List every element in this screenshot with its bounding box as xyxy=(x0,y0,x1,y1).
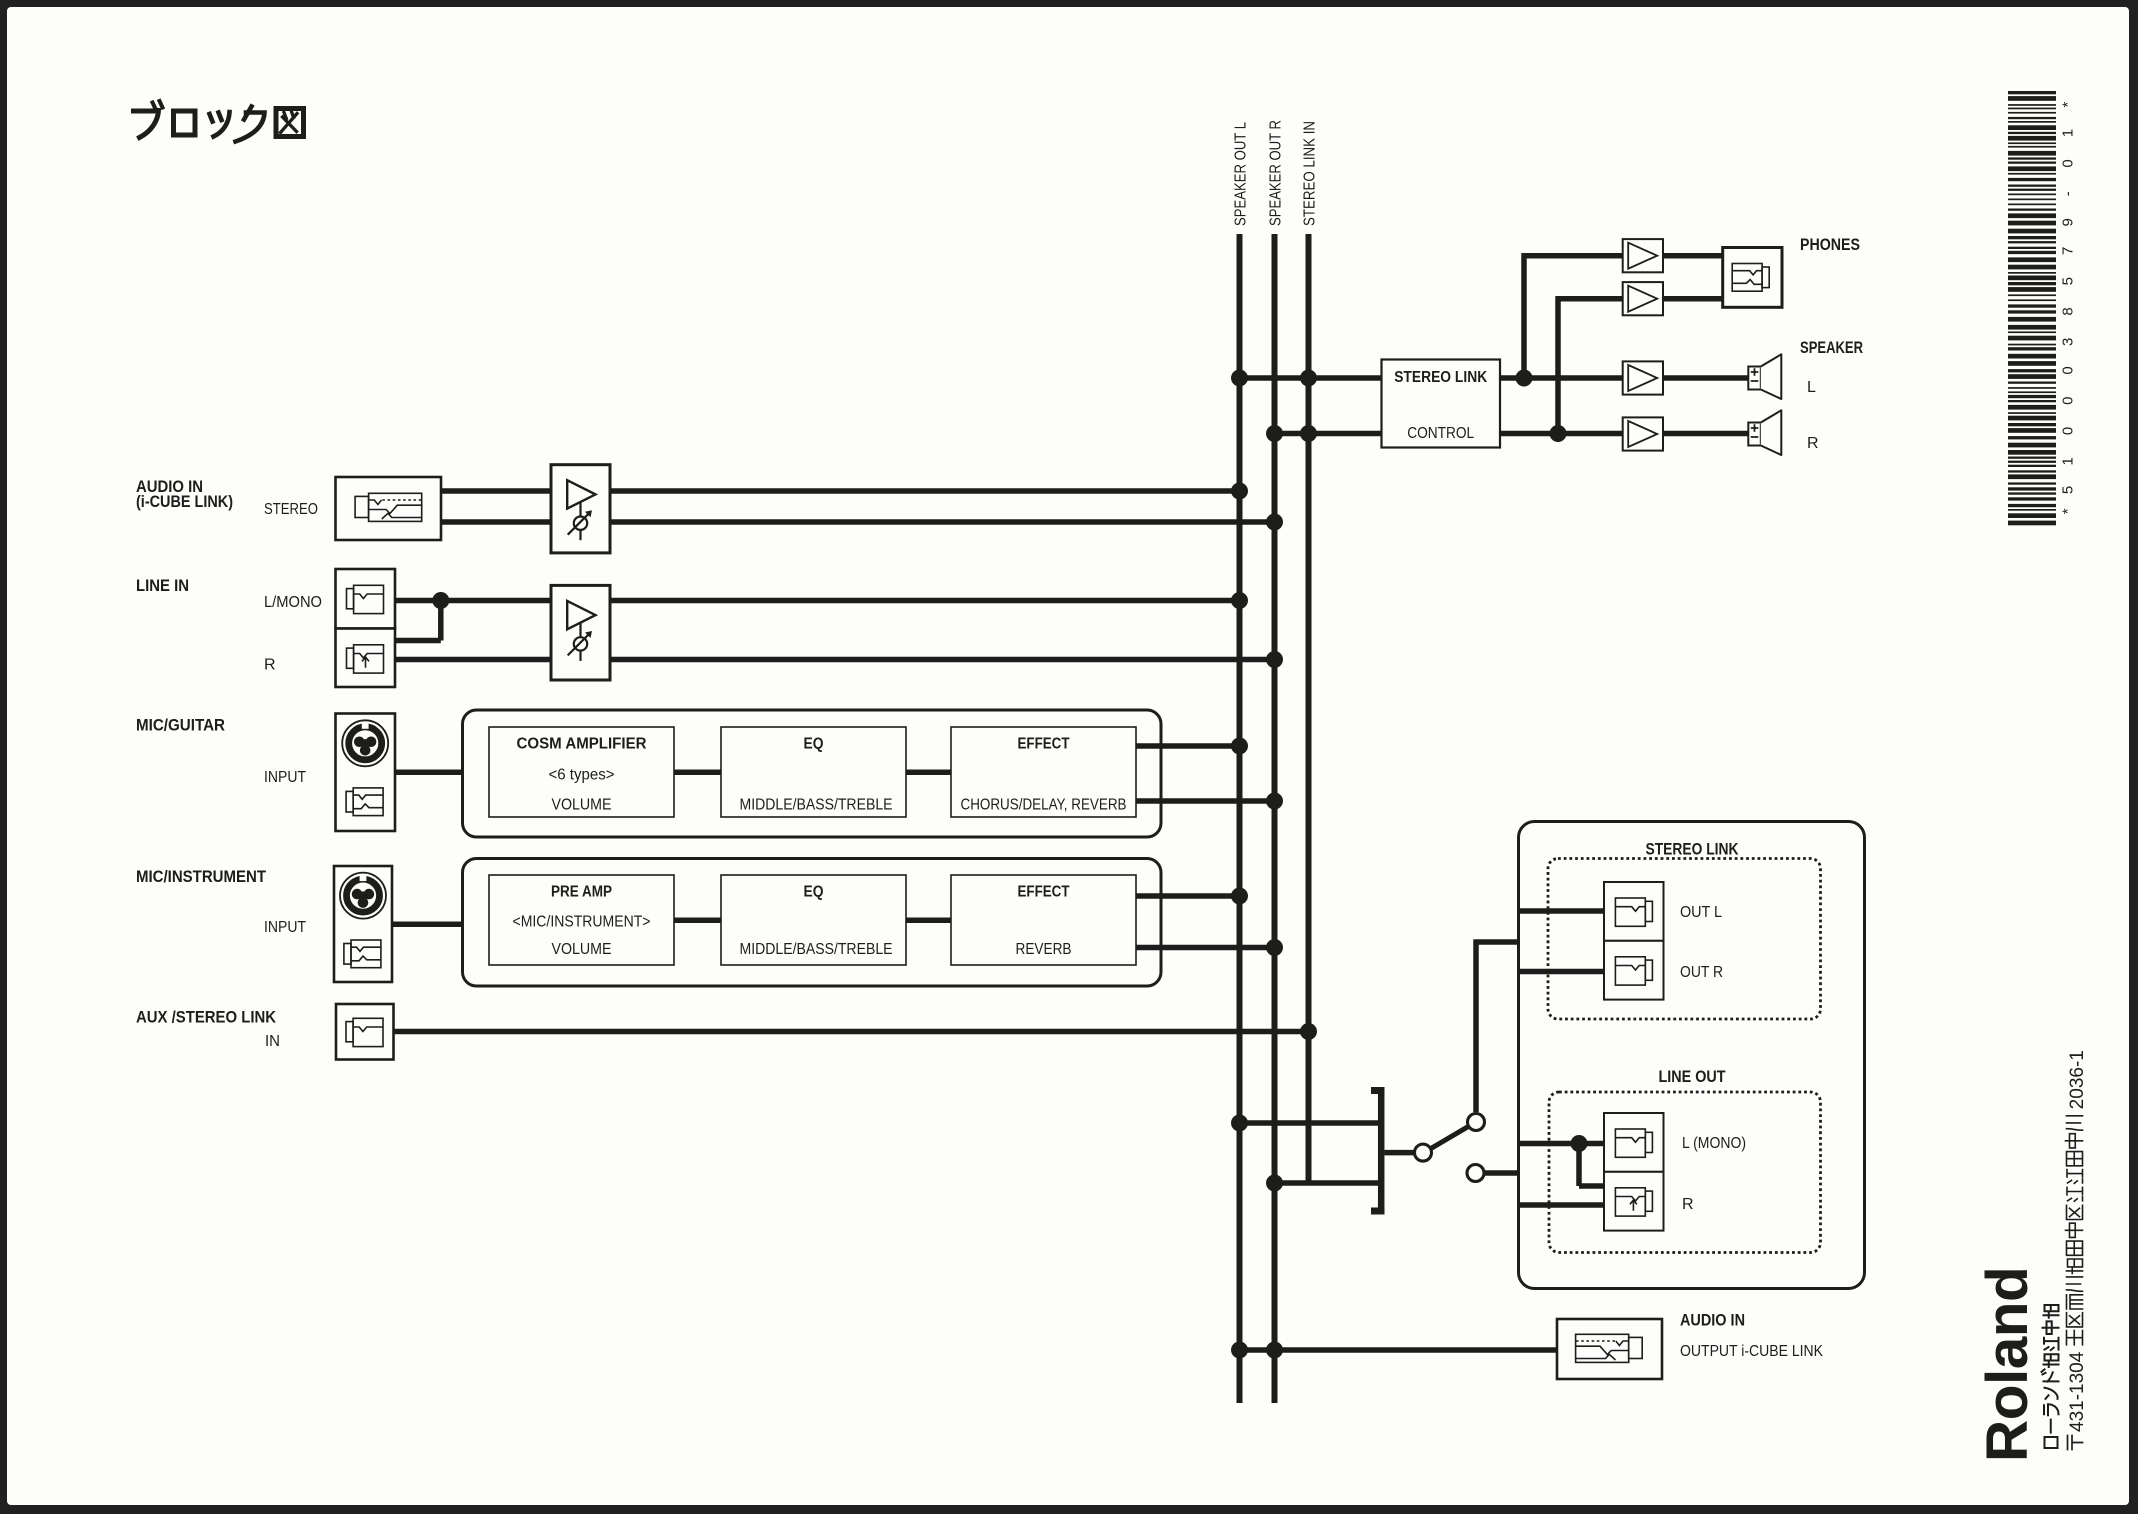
wire to L(MONO) jack xyxy=(1520,1141,1604,1147)
svg-text:R: R xyxy=(264,657,276,674)
svg-text:EQ: EQ xyxy=(804,884,824,901)
amp phones R xyxy=(1623,282,1663,315)
phones jack box xyxy=(1723,248,1782,308)
svg-text:AUX /STEREO LINK: AUX /STEREO LINK xyxy=(136,1009,276,1027)
svg-text:EQ: EQ xyxy=(804,736,824,753)
svg-text:L/MONO: L/MONO xyxy=(264,594,322,611)
switch upper contact xyxy=(1468,1114,1485,1131)
svg-text:LINE OUT: LINE OUT xyxy=(1659,1068,1726,1086)
svg-text:PHONES: PHONES xyxy=(1800,235,1860,254)
svg-text:STEREO LINK: STEREO LINK xyxy=(1394,369,1487,386)
address 431-1304 Shizuoka xyxy=(2066,1050,2089,1449)
svg-text:SPEAKER OUT R: SPEAKER OUT R xyxy=(1268,120,1285,226)
wire buses to audio-in output jack xyxy=(1240,1347,1558,1353)
wire upper contact to stereo-link jacks xyxy=(1473,942,1518,1112)
svg-text:MIC/GUITAR: MIC/GUITAR xyxy=(136,717,225,735)
wire to R jack (line out) xyxy=(1520,1202,1604,1208)
svg-text:INPUT: INPUT xyxy=(264,919,306,936)
line in L jack box xyxy=(336,569,396,629)
svg-text:MIC/INSTRUMENT: MIC/INSTRUMENT xyxy=(136,868,266,886)
R jack box (line out) xyxy=(1604,1172,1664,1231)
wire mono branch to R jack xyxy=(1579,1144,1604,1187)
switch common contact xyxy=(1415,1144,1432,1161)
svg-text:EFFECT: EFFECT xyxy=(1018,736,1070,753)
svg-text:7: 7 xyxy=(2060,247,2077,255)
svg-text:-: - xyxy=(2060,191,2077,196)
junction dot speaker R xyxy=(1550,425,1567,442)
wire line-in mono branch xyxy=(395,601,441,641)
svg-text:5: 5 xyxy=(2060,277,2077,285)
svg-text:1: 1 xyxy=(2060,457,2077,465)
svg-text:SPEAKER OUT L: SPEAKER OUT L xyxy=(1233,122,1250,226)
wire phones L amp to jack xyxy=(1663,253,1723,259)
dot line-in R on bus2 xyxy=(1266,651,1283,668)
wire phones R amp to jack xyxy=(1663,296,1723,302)
amp speaker R xyxy=(1623,417,1663,450)
switch arm xyxy=(1431,1127,1467,1148)
wire effect out top to bus1 xyxy=(1136,743,1240,749)
speaker icon L xyxy=(1748,367,1761,390)
svg-text:OUT L: OUT L xyxy=(1680,904,1722,921)
svg-text:INPUT: INPUT xyxy=(264,769,306,786)
dot audio-out bus2 xyxy=(1266,1342,1283,1359)
svg-text:*: * xyxy=(2060,102,2077,108)
company name ローランド株式会社 xyxy=(2042,1305,2059,1448)
svg-text:(i-CUBE LINK): (i-CUBE LINK) xyxy=(136,493,233,511)
svg-text:0: 0 xyxy=(2060,159,2077,167)
wire speaker L amp to speaker xyxy=(1663,375,1748,381)
svg-text:COSM AMPLIFIER: COSM AMPLIFIER xyxy=(517,736,647,753)
amp U2 line in xyxy=(551,585,610,680)
wire line-in L jack to amp xyxy=(395,598,551,604)
svg-text:*: * xyxy=(2060,508,2077,514)
mic/instrument combo jack box xyxy=(334,866,392,982)
riser to phones L amp xyxy=(1521,256,1622,381)
mic/guitar combo jack box xyxy=(336,714,396,832)
wire COSM to EQ xyxy=(674,770,721,776)
wire bus2 to switch bracket (lower) xyxy=(1275,1180,1380,1186)
dot line out mono split xyxy=(1571,1135,1588,1152)
svg-text:L (MONO): L (MONO) xyxy=(1682,1135,1746,1152)
dotted box line out xyxy=(1549,1092,1821,1253)
svg-text:9: 9 xyxy=(2060,218,2077,226)
svg-text:PRE AMP: PRE AMP xyxy=(551,884,612,901)
junction dots on upper control wire xyxy=(1231,370,1248,387)
title ブロック図 xyxy=(134,111,159,138)
svg-text:VOLUME: VOLUME xyxy=(552,797,612,814)
dot aux on bus3 xyxy=(1300,1023,1317,1040)
wire to OUT R jack xyxy=(1520,969,1604,975)
svg-text:0: 0 xyxy=(2060,427,2077,435)
dot audio-out bus1 xyxy=(1231,1342,1248,1359)
wire speaker R amp to speaker xyxy=(1663,431,1748,437)
svg-text:VOLUME: VOLUME xyxy=(552,941,612,958)
COSM AMPLIFIER box xyxy=(489,727,674,817)
svg-text:IN: IN xyxy=(265,1033,280,1050)
audio in output jack box xyxy=(1557,1319,1662,1379)
wire audio-in L amp to bus xyxy=(610,488,1240,494)
dot effect2 top bus1 xyxy=(1231,888,1248,905)
svg-text:3: 3 xyxy=(2060,338,2077,346)
wire effect2 out bottom to bus2 xyxy=(1136,945,1275,951)
svg-text:CHORUS/DELAY, REVERB: CHORUS/DELAY, REVERB xyxy=(961,797,1127,814)
svg-text:1: 1 xyxy=(2060,129,2077,137)
wire line-in R jack to amp xyxy=(395,657,551,663)
bus STEREO LINK IN xyxy=(1306,234,1312,1183)
combo XLR icon xyxy=(342,720,388,766)
combo 1/4 jack icon 2 xyxy=(344,940,381,968)
EFFECT box (instrument) xyxy=(951,875,1136,965)
svg-text:2036-1: 2036-1 xyxy=(2067,1050,2088,1109)
barcode xyxy=(2008,91,2056,94)
svg-text:LINE IN: LINE IN xyxy=(136,577,189,595)
svg-text:MIDDLE/BASS/TREBLE: MIDDLE/BASS/TREBLE xyxy=(740,797,893,814)
container COSM chain xyxy=(463,710,1162,837)
OUT L jack box xyxy=(1604,882,1664,941)
svg-text:Roland: Roland xyxy=(1975,1267,2040,1462)
switch bracket xyxy=(1378,1087,1385,1215)
svg-text:STEREO LINK: STEREO LINK xyxy=(1646,841,1739,859)
combo XLR icon 2 xyxy=(340,873,386,919)
svg-text:R: R xyxy=(1807,435,1819,452)
wire bracket to switch common xyxy=(1385,1150,1415,1156)
wire EQ to EFFECT xyxy=(906,770,951,776)
bus SPEAKER OUT L xyxy=(1237,234,1243,1403)
dot switch upper bus1 xyxy=(1231,1115,1248,1132)
wire audio-in L jack to amp xyxy=(441,488,551,494)
svg-text:OUTPUT i-CUBE LINK: OUTPUT i-CUBE LINK xyxy=(1680,1343,1823,1360)
dot effect top bus1 xyxy=(1231,738,1248,755)
wire EQ2 to EFFECT2 xyxy=(906,918,951,924)
svg-text:R: R xyxy=(1682,1196,1694,1213)
wire effect out bottom to bus2 xyxy=(1136,798,1275,804)
line in R jack box xyxy=(336,629,396,688)
EQ box (guitar) xyxy=(721,727,906,817)
EFFECT box (guitar) xyxy=(951,727,1136,817)
svg-text:431-1304: 431-1304 xyxy=(2067,1351,2088,1432)
svg-text:CONTROL: CONTROL xyxy=(1407,425,1474,442)
wire line-in R amp to bus xyxy=(610,657,1275,663)
svg-text:SPEAKER: SPEAKER xyxy=(1800,338,1863,357)
dot switch lower bus2 xyxy=(1266,1175,1283,1192)
wire control box to speaker L amp xyxy=(1500,375,1623,381)
svg-text:<MIC/INSTRUMENT>: <MIC/INSTRUMENT> xyxy=(513,914,651,931)
wire line-in L amp to bus xyxy=(610,598,1240,604)
wire preamp to EQ xyxy=(674,918,721,924)
EQ box (instrument) xyxy=(721,875,906,965)
L (MONO) jack box xyxy=(1604,1113,1664,1172)
svg-text:MIDDLE/BASS/TREBLE: MIDDLE/BASS/TREBLE xyxy=(740,941,893,958)
wire bus1 to switch bracket (upper) xyxy=(1240,1120,1380,1126)
wire effect2 out top to bus1 xyxy=(1136,893,1240,899)
wire guitar jack to container xyxy=(395,770,463,776)
dot effect2 bottom bus2 xyxy=(1266,939,1283,956)
wire aux to bus3 xyxy=(394,1029,1309,1035)
dot effect bottom bus2 xyxy=(1266,793,1283,810)
bus SPEAKER OUT R xyxy=(1272,234,1278,1403)
speaker icon R xyxy=(1748,423,1761,446)
wire control box to speaker R amp xyxy=(1500,431,1623,437)
amp speaker L xyxy=(1623,361,1663,394)
dot line-in mono split xyxy=(432,592,449,609)
svg-text:REVERB: REVERB xyxy=(1016,941,1072,958)
svg-text:STEREO LINK IN: STEREO LINK IN xyxy=(1302,121,1319,226)
svg-text:L: L xyxy=(1807,379,1816,396)
dot audio-in R on bus2 xyxy=(1266,514,1283,531)
svg-text:OUT R: OUT R xyxy=(1680,964,1723,981)
junction dots on lower control wire xyxy=(1266,425,1283,442)
dot line-in L on bus1 xyxy=(1231,592,1248,609)
wire audio-in R jack to amp xyxy=(441,519,551,525)
output panel box xyxy=(1519,822,1865,1289)
wire lower contact to line-out jacks xyxy=(1485,1170,1519,1176)
combo 1/4 jack icon xyxy=(346,788,383,816)
junction dot speaker L xyxy=(1516,370,1533,387)
dotted box stereo link xyxy=(1548,859,1821,1020)
svg-text:0: 0 xyxy=(2060,366,2077,374)
container PRE AMP chain xyxy=(463,859,1162,987)
svg-text:0: 0 xyxy=(2060,397,2077,405)
dot audio-in L on bus1 xyxy=(1231,483,1248,500)
amp U1 audio in xyxy=(551,465,610,553)
wire bus to stereo link control (lower) xyxy=(1275,431,1382,437)
svg-text:EFFECT: EFFECT xyxy=(1018,884,1070,901)
wire bus to stereo link control (upper) xyxy=(1240,375,1382,381)
svg-text:5: 5 xyxy=(2060,486,2077,494)
wire to OUT L jack xyxy=(1520,908,1604,914)
svg-text:8: 8 xyxy=(2060,307,2077,315)
audio in jack box xyxy=(336,477,442,540)
riser to phones R amp xyxy=(1555,299,1622,437)
amp phones L xyxy=(1623,239,1663,272)
svg-text:AUDIO IN: AUDIO IN xyxy=(1680,1312,1745,1330)
switch lower contact xyxy=(1467,1165,1484,1182)
OUT R jack box xyxy=(1604,941,1664,1000)
svg-text:STEREO: STEREO xyxy=(264,501,318,518)
wire audio-in R amp to bus xyxy=(610,519,1275,525)
wire instrument jack to container xyxy=(392,921,463,927)
aux jack box xyxy=(336,1004,394,1060)
svg-text:<6 types>: <6 types> xyxy=(549,767,615,784)
PRE AMP box xyxy=(489,875,674,965)
STEREO LINK CONTROL box xyxy=(1382,360,1501,448)
